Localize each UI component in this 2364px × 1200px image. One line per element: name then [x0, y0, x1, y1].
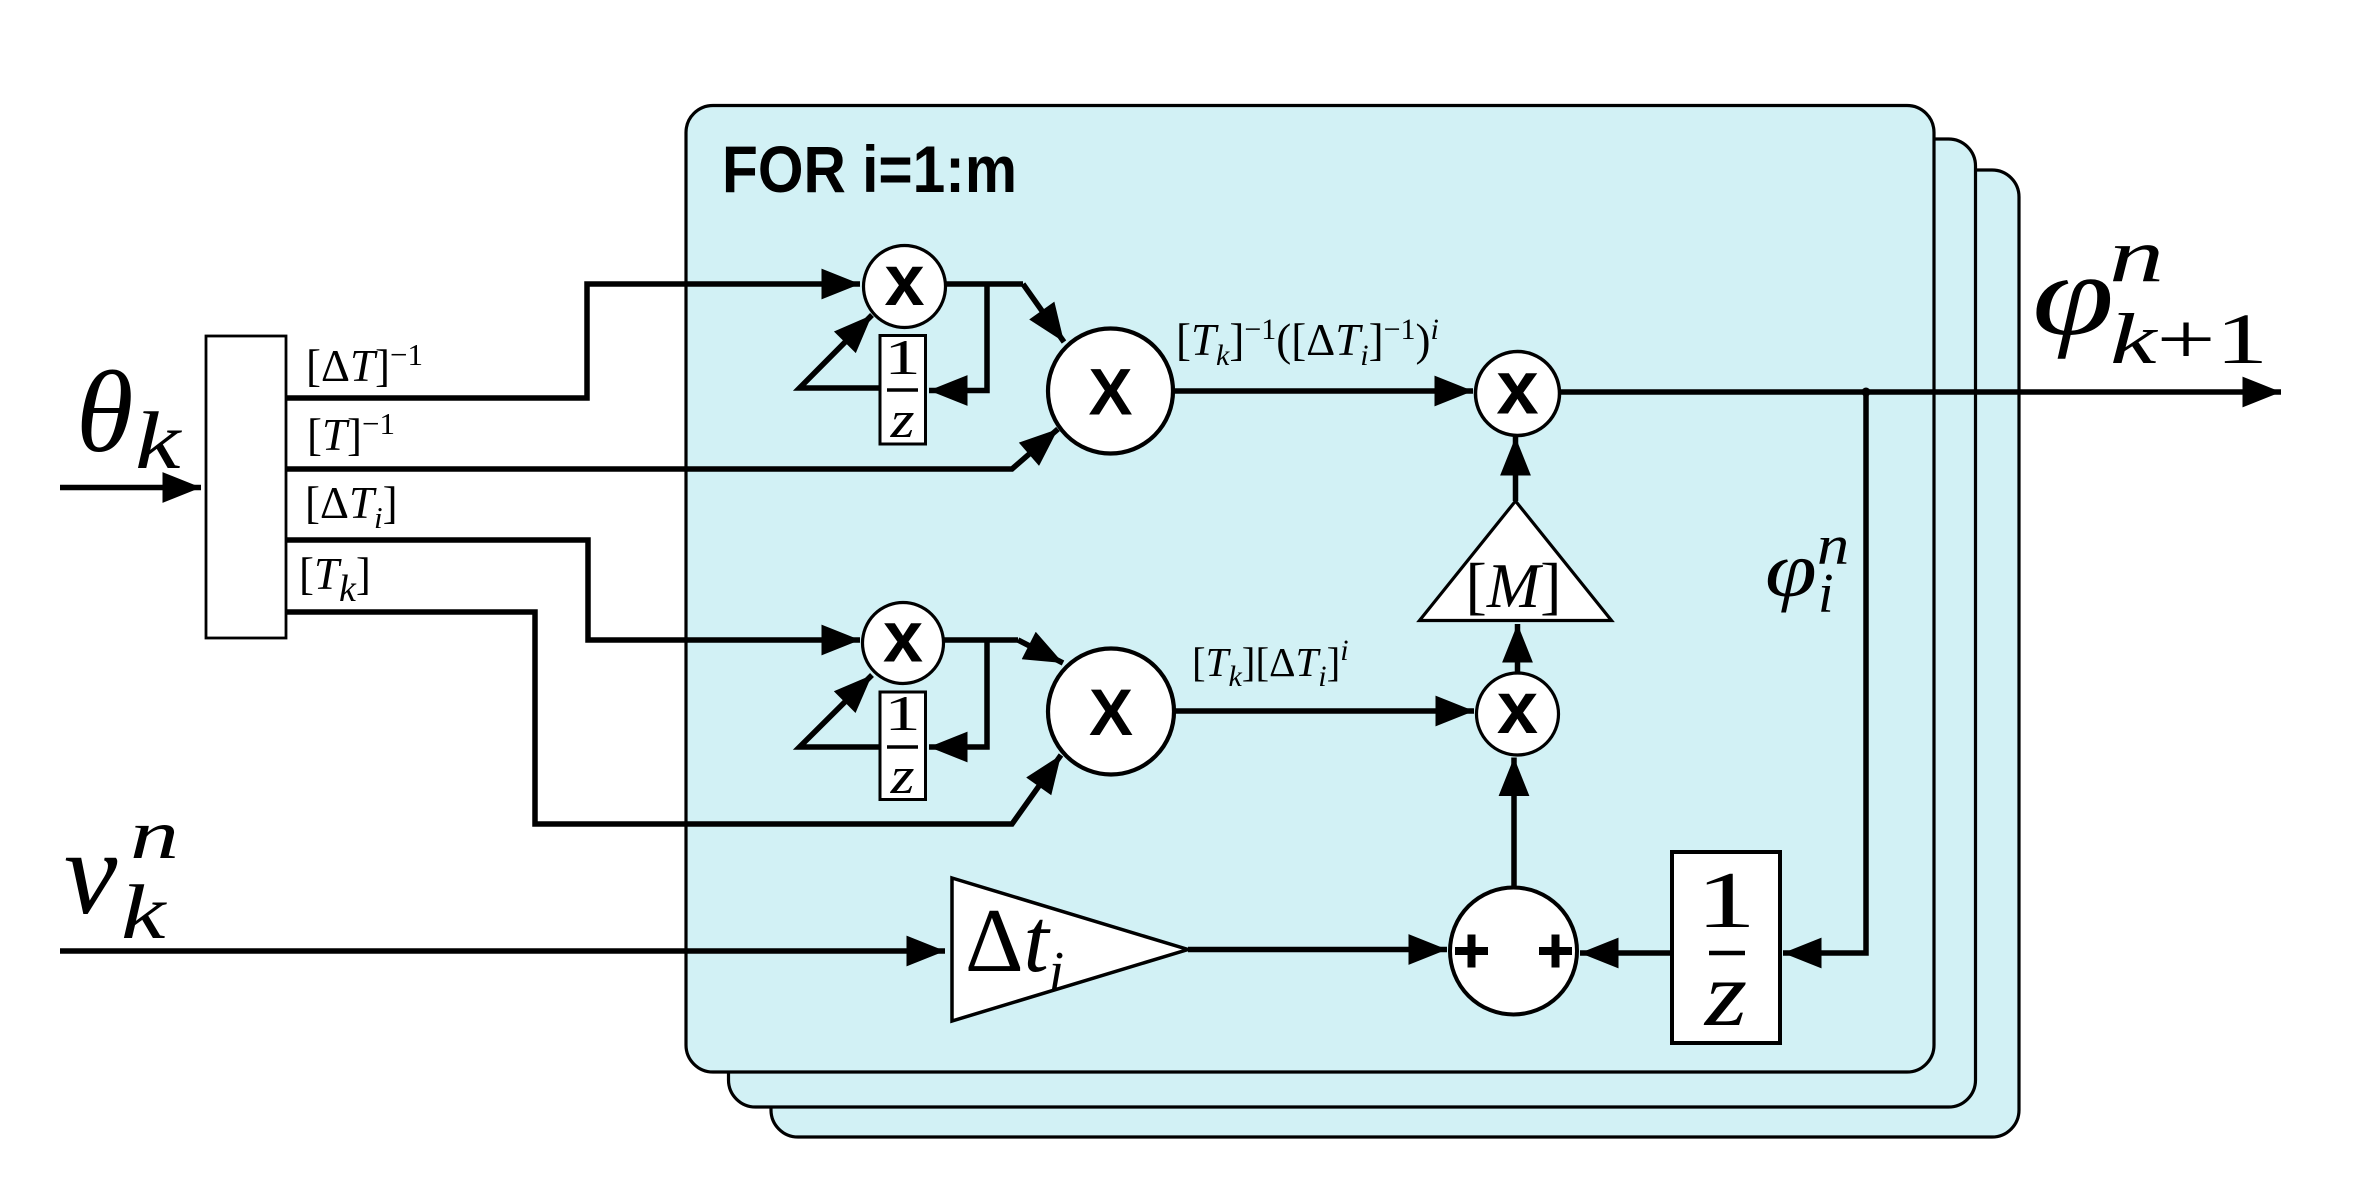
svg-text:k+1: k+1	[2110, 299, 2268, 379]
svg-text:1: 1	[884, 687, 920, 742]
svg-text:z: z	[889, 747, 914, 805]
svg-text:i: i	[1818, 563, 1834, 625]
svg-text:φ: φ	[2032, 230, 2114, 359]
svg-text:k: k	[135, 396, 182, 487]
svg-text:x: x	[1497, 666, 1538, 749]
svg-text:[ΔT]−1: [ΔT]−1	[306, 337, 423, 391]
svg-text:z: z	[889, 391, 914, 449]
svg-text:x: x	[883, 598, 923, 678]
svg-text:v: v	[64, 806, 118, 939]
svg-text:FOR i=1:m: FOR i=1:m	[722, 132, 1017, 206]
svg-text:[ΔTi]: [ΔTi]	[305, 478, 398, 535]
svg-text:k: k	[121, 870, 167, 955]
svg-text:z: z	[1703, 943, 1747, 1045]
svg-text:n: n	[130, 796, 179, 873]
svg-text:[M]: [M]	[1466, 550, 1562, 621]
svg-text:1: 1	[884, 331, 920, 386]
svg-text:[T]−1: [T]−1	[307, 406, 395, 460]
svg-text:X: X	[1088, 355, 1132, 429]
svg-text:1: 1	[1696, 856, 1756, 945]
svg-text:n: n	[2109, 214, 2164, 298]
svg-text:x: x	[1496, 346, 1538, 431]
svg-text:θ: θ	[76, 348, 133, 477]
svg-text:φ: φ	[1765, 526, 1817, 613]
svg-text:X: X	[1089, 675, 1133, 749]
svg-text:x: x	[884, 241, 924, 321]
svg-text:[Tk]: [Tk]	[299, 549, 371, 610]
